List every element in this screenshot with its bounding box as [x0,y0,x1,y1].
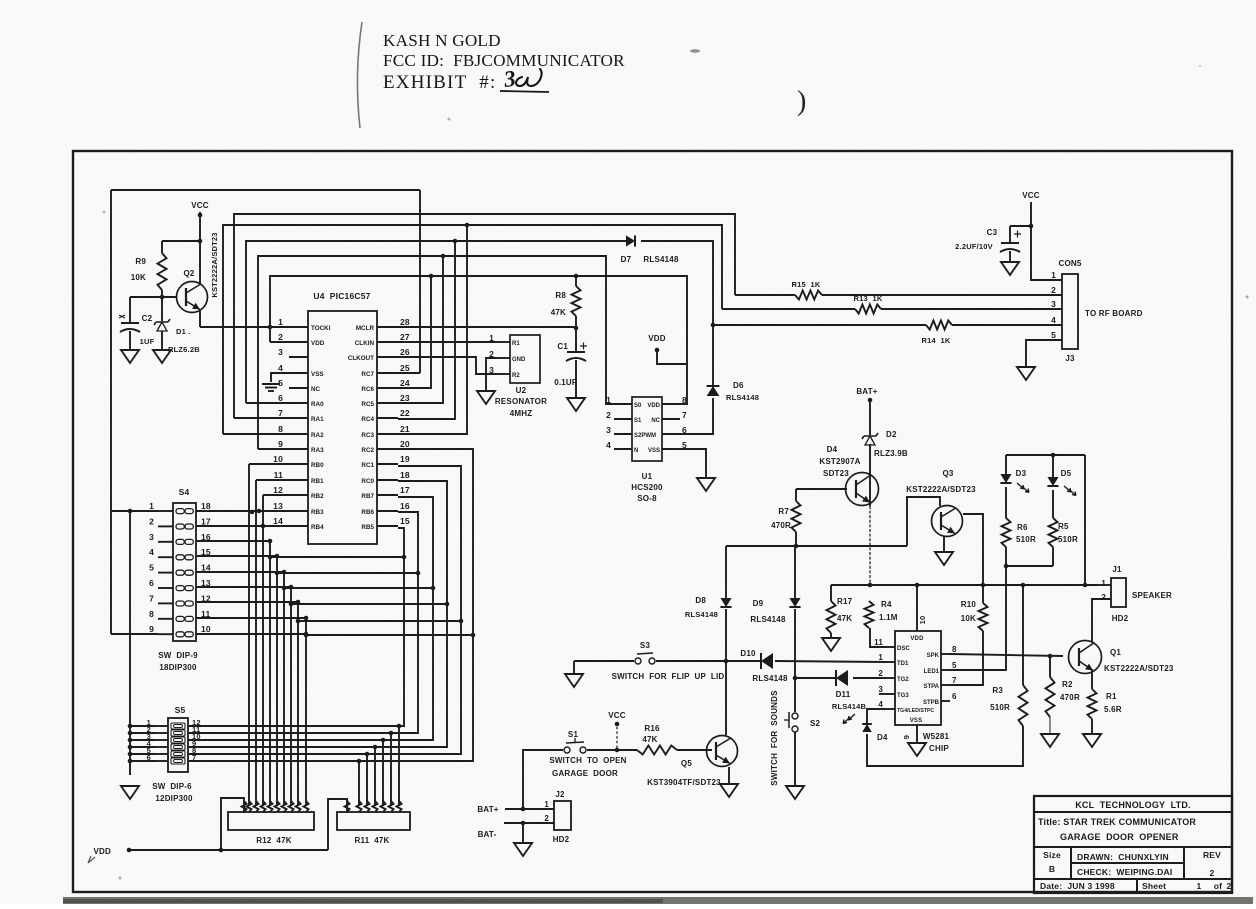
svg-text:10K: 10K [961,614,976,623]
svg-text:R7: R7 [778,507,789,516]
svg-text:VDD: VDD [311,340,325,347]
svg-text:28: 28 [400,317,410,327]
svg-text:TOCKI: TOCKI [311,325,331,332]
svg-text:RLS4148: RLS4148 [752,674,788,683]
svg-text:RLS4148: RLS4148 [685,610,718,619]
svg-text:1: 1 [1051,270,1056,280]
svg-text:16: 16 [400,501,410,511]
svg-text:SPK: SPK [927,653,940,659]
svg-text:S2: S2 [810,719,821,728]
svg-text:6: 6 [149,578,154,588]
svg-text:REV: REV [1203,850,1221,860]
svg-text:CHIP: CHIP [929,744,949,753]
svg-text:RESONATOR: RESONATOR [495,397,547,406]
svg-text:VCC: VCC [1022,191,1040,200]
svg-text:510R: 510R [1058,535,1078,544]
svg-text:N: N [634,448,638,454]
svg-text:2: 2 [1051,285,1056,295]
svg-text:RC0: RC0 [361,478,374,485]
svg-text:SO-8: SO-8 [637,494,657,503]
svg-text:7: 7 [149,593,154,603]
svg-text:SPEAKER: SPEAKER [1132,591,1172,600]
svg-text:J3: J3 [1065,354,1075,363]
svg-text:DRAWN: CHUNXLYIN: DRAWN: CHUNXLYIN [1077,852,1169,862]
svg-text:VDD: VDD [647,403,660,409]
svg-text:19: 19 [400,454,410,464]
svg-text:DSC: DSC [897,646,910,652]
svg-text:470R: 470R [771,521,791,530]
svg-text:3: 3 [878,685,883,694]
svg-text:S1: S1 [568,730,579,739]
svg-text:R1: R1 [1106,692,1117,701]
svg-text:0.1UF: 0.1UF [554,378,577,387]
svg-text:RA1: RA1 [311,416,324,423]
svg-text:5: 5 [952,661,957,670]
svg-text:of: of [1214,881,1222,891]
svg-text:1UF: 1UF [140,337,155,346]
svg-text:9: 9 [902,735,911,739]
svg-text:Q2: Q2 [183,269,194,278]
svg-text:8: 8 [952,645,957,654]
svg-text:8: 8 [149,609,154,619]
svg-text:10: 10 [201,624,211,634]
svg-text:D1 .: D1 . [176,327,191,336]
svg-text:12: 12 [273,485,283,495]
svg-text:9: 9 [149,624,154,634]
svg-text:R6: R6 [1017,523,1028,532]
svg-text:TD1: TD1 [897,661,909,667]
svg-text:S1: S1 [634,418,642,424]
svg-text:12DIP300: 12DIP300 [155,794,193,803]
svg-text:RB4: RB4 [311,524,324,531]
svg-text:STPB: STPB [923,700,940,706]
svg-text:5.6R: 5.6R [1104,705,1122,714]
svg-text:Date: JUN 3 1998: Date: JUN 3 1998 [1040,881,1115,891]
svg-text:47K: 47K [551,308,566,317]
svg-text:470R: 470R [1060,693,1080,702]
svg-text:BAT+: BAT+ [856,387,877,396]
svg-text:RB0: RB0 [311,462,324,469]
svg-text:8: 8 [278,424,283,434]
svg-text:R13 1K: R13 1K [854,294,883,303]
svg-text:Sheet: Sheet [1142,881,1166,891]
svg-text:B: B [1049,864,1055,874]
svg-text:47K: 47K [837,614,852,623]
svg-text:10: 10 [918,616,927,625]
svg-text:11: 11 [274,470,283,480]
svg-text:1: 1 [149,501,154,511]
svg-text:SW DIP-6: SW DIP-6 [152,782,192,791]
svg-text:RB2: RB2 [311,493,324,500]
svg-text:D5: D5 [1061,469,1072,478]
svg-text:7: 7 [278,408,283,418]
svg-text:D2: D2 [886,430,897,439]
svg-text:VSS: VSS [311,371,324,378]
svg-text:GARAGE DOOR: GARAGE DOOR [552,769,618,778]
svg-text:S2PWM: S2PWM [634,433,656,439]
svg-text:W5281: W5281 [923,732,950,741]
svg-text:D4: D4 [827,445,838,454]
svg-text:KST2222A/SDT23: KST2222A/SDT23 [210,232,219,297]
svg-text:BAT-: BAT- [478,830,497,839]
svg-text:SWITCH TO OPEN: SWITCH TO OPEN [549,756,626,765]
svg-text:2: 2 [1210,868,1215,878]
svg-text:VDD: VDD [94,847,112,856]
svg-text:KST3904TF/SDT23: KST3904TF/SDT23 [647,778,721,787]
svg-text:4: 4 [1051,315,1056,325]
svg-text:GND: GND [512,357,526,363]
svg-text:4MHZ: 4MHZ [510,409,533,418]
svg-text:1: 1 [606,395,611,405]
svg-text:RB6: RB6 [361,509,374,516]
svg-text:NC: NC [651,418,660,424]
svg-text:510R: 510R [1016,535,1036,544]
svg-text:5: 5 [1051,330,1056,340]
svg-text:4: 4 [149,547,154,557]
svg-text:3: 3 [278,347,283,357]
svg-text:D4: D4 [877,733,888,742]
svg-text:TG4/LED/STPC: TG4/LED/STPC [897,708,934,714]
svg-text:RC1: RC1 [361,462,374,469]
svg-text:S0: S0 [634,403,642,409]
svg-text:BAT+: BAT+ [477,805,498,814]
svg-text:R11 47K: R11 47K [355,836,390,845]
svg-text:13: 13 [273,501,283,511]
svg-text:2: 2 [278,332,283,342]
svg-text:RC4: RC4 [361,416,374,423]
svg-text:TO RF BOARD: TO RF BOARD [1085,309,1143,318]
svg-text:RLZ6.2B: RLZ6.2B [168,345,200,354]
svg-text:NC: NC [311,386,321,393]
svg-text:2: 2 [606,410,611,420]
svg-text:KASH N GOLD: KASH N GOLD [383,31,501,50]
svg-text:1: 1 [1101,579,1106,588]
svg-text:U4 PIC16C57: U4 PIC16C57 [313,291,370,301]
svg-text:KST2222A/SDT23: KST2222A/SDT23 [906,485,976,494]
svg-text:TG2: TG2 [897,677,909,683]
svg-text:RLS4148: RLS4148 [750,615,786,624]
svg-text:4: 4 [606,440,611,450]
svg-text:TG3: TG3 [897,693,909,699]
svg-text:4: 4 [878,700,883,709]
svg-text:R16: R16 [644,724,660,733]
svg-text:CLKIN: CLKIN [355,340,375,347]
svg-text:10K: 10K [131,273,146,282]
svg-text:RC3: RC3 [361,432,374,439]
svg-text:R1: R1 [512,341,520,347]
svg-text:): ) [797,86,806,117]
svg-text:SWITCH FOR FLIP UP LID: SWITCH FOR FLIP UP LID [612,672,725,681]
svg-text:D11: D11 [836,690,851,699]
svg-text:R14 1K: R14 1K [922,336,951,345]
svg-text:6: 6 [278,393,283,403]
svg-text:VCC: VCC [608,711,626,720]
svg-text:11: 11 [874,638,883,647]
svg-text:EXHIBIT #:: EXHIBIT #: [383,72,496,93]
svg-text:LED1: LED1 [924,669,940,675]
svg-text:17: 17 [201,516,211,526]
svg-text:Q1: Q1 [1110,648,1121,657]
svg-text:KST2907A: KST2907A [819,457,860,466]
svg-text:D3: D3 [1016,469,1027,478]
svg-text:510R: 510R [990,703,1010,712]
svg-text:RC2: RC2 [361,447,374,454]
svg-text:R10: R10 [961,600,977,609]
svg-text:RLZ3.9B: RLZ3.9B [874,449,908,458]
svg-text:47K: 47K [642,735,657,744]
svg-text:2: 2 [878,669,883,678]
svg-text:21: 21 [400,424,410,434]
svg-text:14: 14 [273,516,283,526]
svg-text:26: 26 [400,347,410,357]
svg-text:20: 20 [400,439,410,449]
svg-text:3: 3 [1051,299,1056,309]
svg-text:Q5: Q5 [681,759,692,768]
svg-text:J1: J1 [1112,565,1122,574]
svg-text:18DIP300: 18DIP300 [159,663,197,672]
svg-text:RLS4148: RLS4148 [643,255,679,264]
svg-text:D6: D6 [733,381,744,390]
svg-text:24: 24 [400,378,410,388]
svg-text:27: 27 [400,332,410,342]
svg-text:VSS: VSS [910,718,923,724]
svg-text:VSS: VSS [648,448,660,454]
svg-text:5: 5 [278,378,283,388]
svg-text:RB7: RB7 [361,493,374,500]
svg-text:U1: U1 [642,472,653,481]
svg-text:C1: C1 [557,342,568,351]
svg-text:25: 25 [400,363,410,373]
svg-text:15: 15 [400,516,410,526]
svg-text:R8: R8 [555,291,566,300]
svg-text:HCS200: HCS200 [631,483,663,492]
svg-text:RA2: RA2 [311,432,324,439]
svg-text:D9: D9 [753,599,764,608]
svg-text:1: 1 [1197,881,1202,891]
svg-text:RB3: RB3 [311,509,324,516]
svg-text:HD2: HD2 [553,835,570,844]
svg-text:2: 2 [1101,593,1106,602]
svg-text:Title: STAR TREK COMMUNICATOR: Title: STAR TREK COMMUNICATOR [1038,817,1196,827]
svg-text:CON5: CON5 [1058,259,1081,268]
svg-text:1.1M: 1.1M [879,613,898,622]
svg-text:8: 8 [682,395,687,405]
svg-text:CHECK: WEIPING.DAI: CHECK: WEIPING.DAI [1077,867,1172,877]
svg-text:KST2222A/SDT23: KST2222A/SDT23 [1104,664,1174,673]
svg-text:18: 18 [201,501,211,511]
svg-text:1: 1 [878,653,883,662]
svg-text:2: 2 [544,814,549,823]
svg-text:S4: S4 [179,487,190,497]
svg-text:R9: R9 [135,257,146,266]
svg-text:RLS4148: RLS4148 [726,393,759,402]
svg-text:VDD: VDD [910,636,924,642]
svg-text:D7: D7 [621,255,632,264]
svg-text:STPA: STPA [923,684,939,690]
svg-text:9: 9 [278,439,283,449]
svg-text:4: 4 [278,363,283,373]
svg-text:7: 7 [682,410,687,420]
svg-text:S5: S5 [175,705,186,715]
svg-text:RA3: RA3 [311,447,324,454]
svg-text:RC6: RC6 [361,386,374,393]
svg-text:C3: C3 [987,228,998,237]
svg-text:2: 2 [149,516,154,526]
svg-text:22: 22 [400,408,410,418]
svg-text:U2: U2 [516,386,527,395]
svg-text:23: 23 [400,393,410,403]
svg-text:1: 1 [544,800,549,809]
svg-text:2.2UF/10V: 2.2UF/10V [955,242,993,251]
svg-text:GARAGE DOOR OPENER: GARAGE DOOR OPENER [1060,832,1179,842]
svg-text:R5: R5 [1058,522,1069,531]
svg-text:D8: D8 [695,596,706,605]
svg-text:R4: R4 [881,600,892,609]
svg-text:VCC: VCC [191,201,209,210]
svg-text:3: 3 [149,532,154,542]
svg-text:Q3: Q3 [942,469,953,478]
svg-text:HD2: HD2 [1112,614,1129,623]
svg-text:D10: D10 [740,649,756,658]
svg-text:R3: R3 [992,686,1003,695]
svg-text:R2: R2 [1062,680,1073,689]
svg-text:J2: J2 [555,790,565,799]
svg-text:SWITCH FOR SOUNDS: SWITCH FOR SOUNDS [770,690,779,786]
svg-text:6: 6 [952,692,957,701]
svg-text:3: 3 [606,425,611,435]
svg-text:7: 7 [952,676,957,685]
svg-text:SW DIP-9: SW DIP-9 [158,651,198,660]
svg-text:RC5: RC5 [361,401,374,408]
svg-text:CLKOUT: CLKOUT [348,355,374,362]
svg-text:17: 17 [400,485,410,495]
svg-text:MCLR: MCLR [356,325,375,332]
svg-text:Size: Size [1043,850,1061,860]
svg-text:RA0: RA0 [311,401,324,408]
svg-text:1: 1 [278,317,283,327]
svg-text:R12 47K: R12 47K [256,836,291,845]
svg-text:R17: R17 [837,597,853,606]
svg-text:VDD: VDD [648,334,666,343]
svg-text:2: 2 [1227,881,1232,891]
svg-text:KCL TECHNOLOGY LTD.: KCL TECHNOLOGY LTD. [1075,800,1191,810]
svg-text:18: 18 [400,470,410,480]
svg-text:RB5: RB5 [361,524,374,531]
svg-text:RB1: RB1 [311,478,324,485]
svg-text:5: 5 [149,563,154,573]
svg-text:R15 1K: R15 1K [792,280,821,289]
svg-text:RLS414B: RLS414B [832,702,867,711]
svg-text:10: 10 [273,454,283,464]
svg-text:C2: C2 [142,314,153,323]
svg-text:R2: R2 [512,373,520,379]
svg-text:RC7: RC7 [361,371,374,378]
svg-text:S3: S3 [640,641,651,650]
svg-text:SDT23: SDT23 [823,469,849,478]
